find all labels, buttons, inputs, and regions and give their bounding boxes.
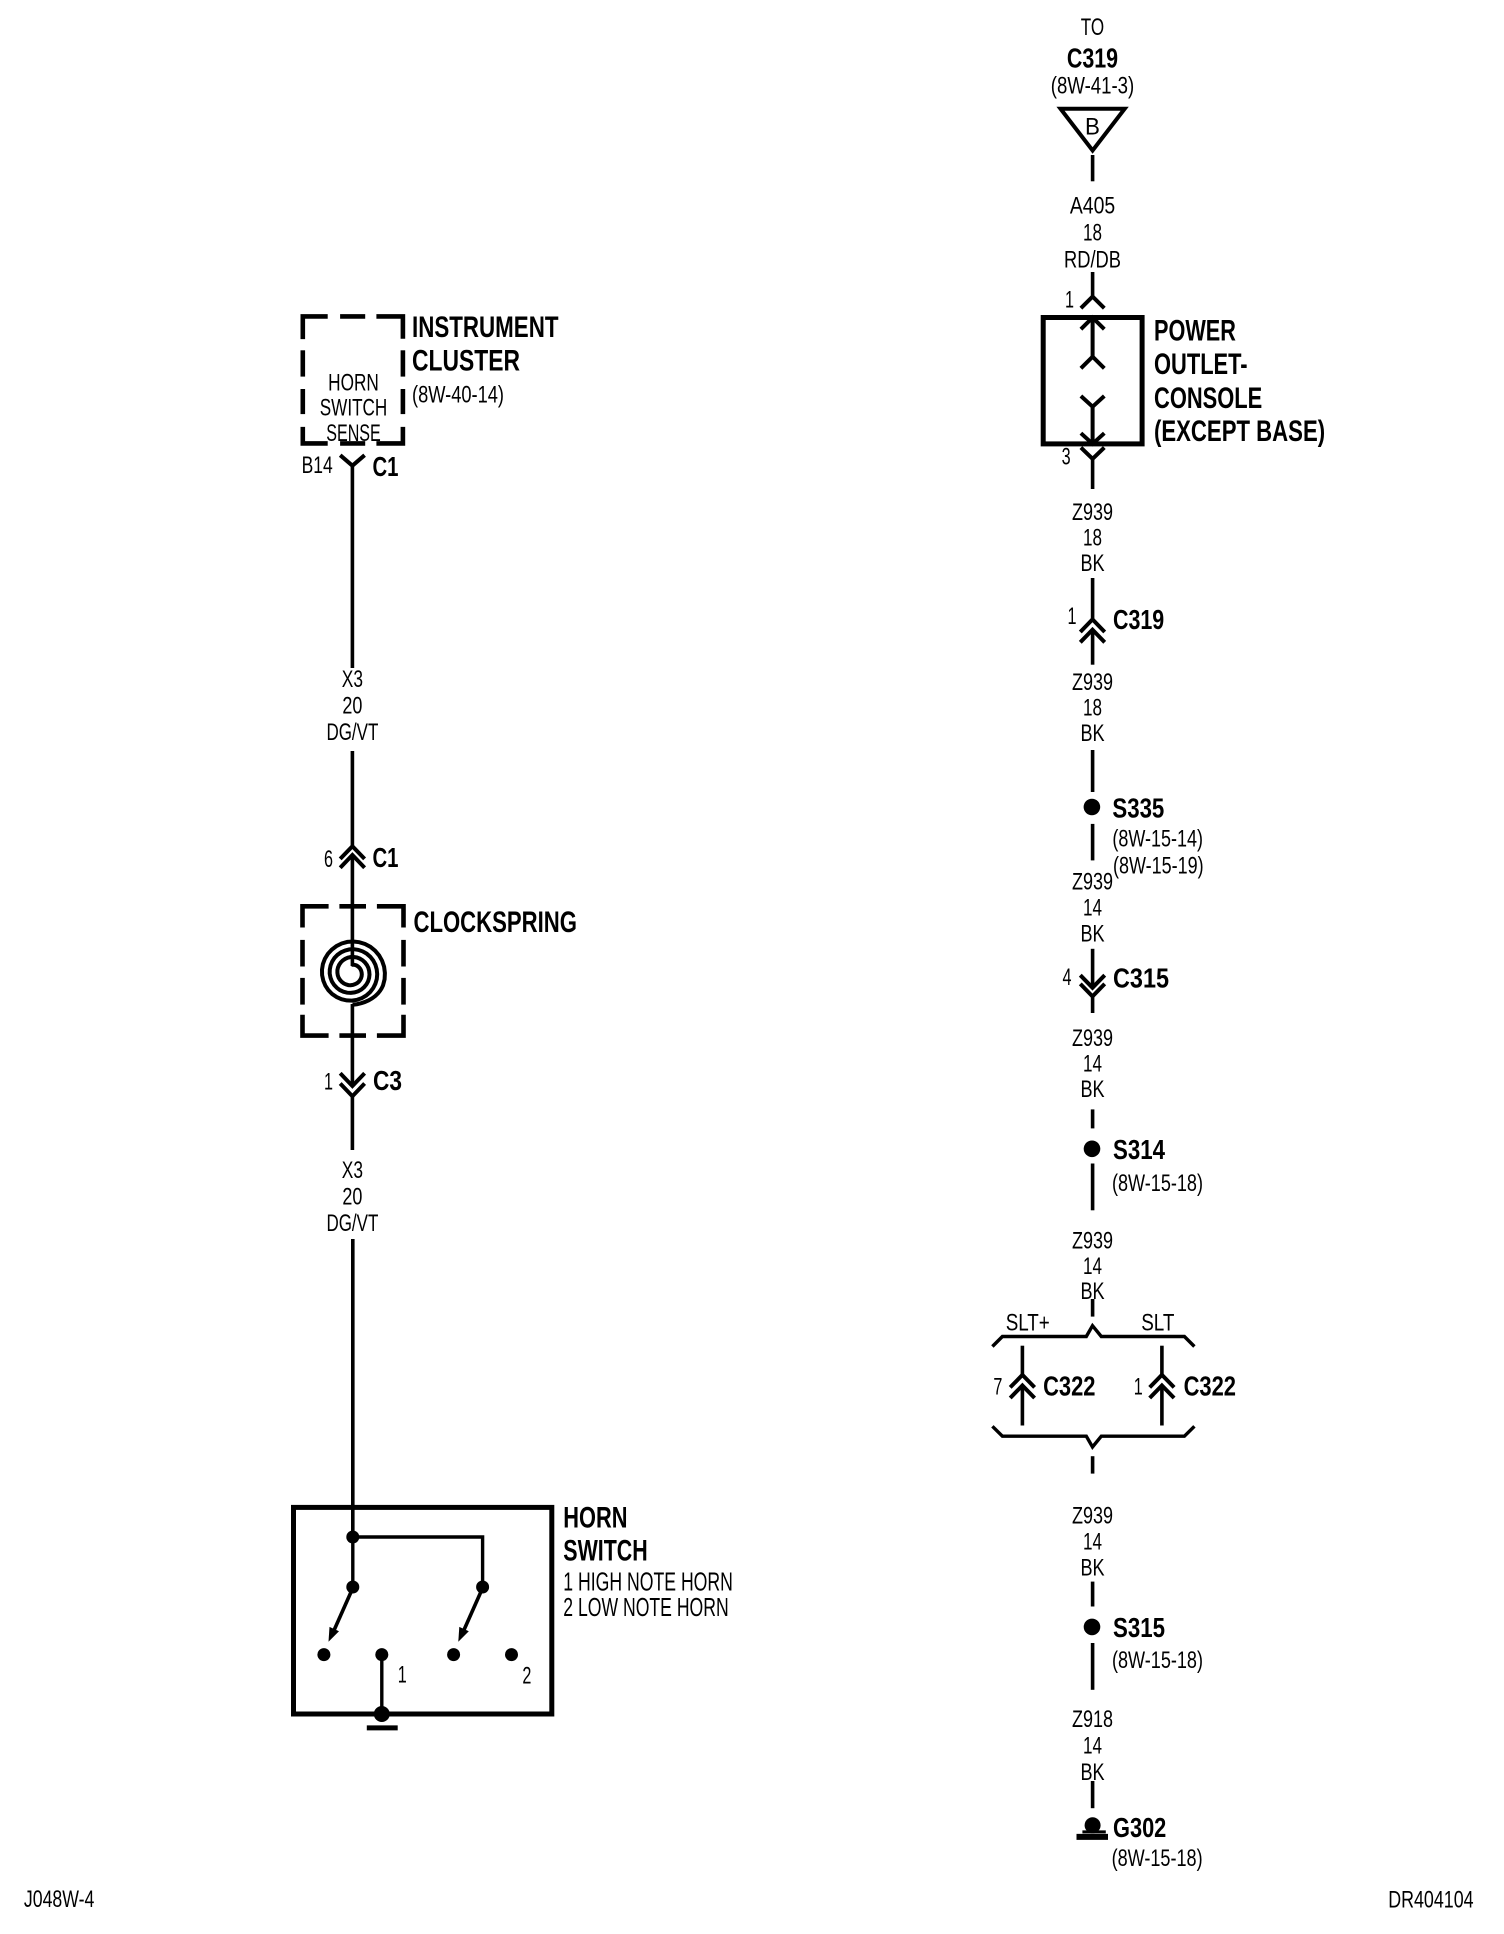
wire label Z918 14 BK	[1072, 1706, 1113, 1786]
svg-text:C319: C319	[1113, 604, 1164, 635]
wire split brace (top)	[992, 1326, 1194, 1347]
svg-text:(8W-40-14): (8W-40-14)	[412, 382, 504, 409]
svg-text:7: 7	[993, 1373, 1002, 1400]
svg-text:(EXCEPT BASE): (EXCEPT BASE)	[1154, 415, 1325, 448]
svg-text:(8W-15-14): (8W-15-14)	[1112, 826, 1203, 853]
wire below S335	[1091, 824, 1095, 861]
svg-text:DG/VT: DG/VT	[326, 1210, 378, 1237]
power outlet name label	[1154, 315, 1325, 448]
svg-text:(8W-41-3): (8W-41-3)	[1051, 73, 1134, 100]
splice S315 label	[1112, 1612, 1203, 1674]
wire into clockspring	[351, 855, 355, 966]
wire above S335	[1091, 750, 1095, 792]
wire stub above split	[1091, 1299, 1095, 1317]
svg-text:20: 20	[342, 693, 362, 720]
left contact node	[317, 1648, 330, 1661]
svg-text:BK: BK	[1080, 550, 1104, 577]
case ground node	[374, 1706, 390, 1722]
in-line connector C3 pin 1 (double chevron down)	[340, 1073, 364, 1096]
svg-text:14: 14	[1083, 894, 1102, 921]
left branch wire lower	[1021, 1386, 1025, 1426]
wire above S314	[1091, 1109, 1095, 1128]
svg-text:20: 20	[342, 1183, 362, 1210]
svg-text:C315: C315	[1113, 963, 1169, 994]
wire below C319	[1091, 630, 1095, 665]
svg-text:2 LOW NOTE HORN: 2 LOW NOTE HORN	[563, 1592, 728, 1622]
wire below triangle	[1091, 155, 1095, 181]
svg-text:SENSE: SENSE	[326, 420, 381, 447]
svg-text:CONSOLE: CONSOLE	[1154, 382, 1262, 415]
svg-text:14: 14	[1083, 1051, 1102, 1078]
svg-text:6: 6	[324, 846, 333, 873]
svg-text:1: 1	[1068, 603, 1077, 630]
splice S335 label	[1112, 792, 1203, 879]
svg-text:J048W-4: J048W-4	[24, 1886, 95, 1913]
wire label A405 18 RD/DB	[1064, 193, 1121, 274]
svg-text:14: 14	[1083, 1529, 1102, 1556]
wire label Z939 14 BK (5)	[1072, 1227, 1113, 1305]
svg-text:(8W-15-19): (8W-15-19)	[1113, 853, 1204, 880]
in-line connector C1 pin 6 (double chevron)	[340, 846, 364, 868]
right branch wire upper	[1160, 1346, 1164, 1375]
case ground bar	[367, 1725, 398, 1730]
horn switch box	[294, 1507, 552, 1714]
wire X3 20 DG/VT upper segment	[351, 466, 355, 668]
wire label X3 20 DG/VT (lower)	[326, 1157, 378, 1237]
wire below S315	[1091, 1643, 1095, 1690]
svg-text:OUTLET-: OUTLET-	[1154, 348, 1248, 381]
off-page triangle B	[1061, 109, 1125, 151]
svg-text:BK: BK	[1080, 920, 1104, 947]
splice S315 node	[1084, 1619, 1101, 1636]
wire segment above C1	[351, 751, 355, 846]
svg-text:1: 1	[398, 1662, 407, 1689]
left branch wire upper	[1021, 1346, 1025, 1375]
svg-text:1: 1	[1134, 1373, 1143, 1400]
power outlet box	[1043, 318, 1142, 444]
left switch blade with arrow	[329, 1588, 353, 1642]
svg-text:C3: C3	[373, 1065, 402, 1096]
svg-text:18: 18	[1083, 694, 1102, 721]
svg-text:Z939: Z939	[1072, 1227, 1113, 1254]
svg-text:1: 1	[324, 1069, 333, 1096]
right branch wire lower	[1160, 1386, 1164, 1426]
svg-text:B: B	[1085, 114, 1100, 141]
svg-text:C1: C1	[373, 451, 399, 482]
svg-text:B14: B14	[302, 452, 333, 479]
left pole node	[346, 1581, 359, 1594]
wire label Z939 18 BK (1)	[1072, 499, 1113, 577]
internal wire to right pole	[353, 1537, 483, 1587]
svg-text:HORN: HORN	[563, 1502, 627, 1535]
wire pin1 to case ground	[380, 1655, 383, 1714]
power outlet internal top contact	[1081, 318, 1104, 369]
instrument cluster inner label HORN SWITCH SENSE	[320, 369, 388, 447]
svg-text:SWITCH: SWITCH	[563, 1534, 647, 1567]
off-page reference TO C319	[1051, 14, 1134, 100]
svg-text:(8W-15-18): (8W-15-18)	[1112, 1170, 1203, 1197]
svg-text:INSTRUMENT: INSTRUMENT	[412, 311, 559, 344]
svg-text:DR404104: DR404104	[1388, 1887, 1473, 1914]
pin 1 contact node	[375, 1648, 388, 1661]
svg-text:G302: G302	[1113, 1812, 1166, 1843]
right switch blade with arrow	[458, 1588, 482, 1642]
in-line connector C322 pin 7 (double chevron)	[1010, 1375, 1034, 1398]
splice S335 node	[1084, 799, 1101, 816]
splice S314 node	[1084, 1141, 1101, 1158]
right pole node	[476, 1581, 489, 1594]
wire into power outlet pin 1	[1091, 272, 1095, 297]
svg-text:TO: TO	[1081, 14, 1104, 41]
connector half-arrow at pin 1	[1081, 297, 1104, 309]
junction node (wire entry)	[346, 1531, 359, 1544]
svg-text:C322: C322	[1184, 1370, 1236, 1401]
svg-text:HORN: HORN	[328, 369, 379, 396]
svg-text:18: 18	[1083, 220, 1102, 247]
svg-text:POWER: POWER	[1154, 315, 1236, 348]
svg-text:(8W-15-18): (8W-15-18)	[1112, 1845, 1203, 1872]
ground G302 label	[1112, 1812, 1203, 1872]
wire below C315	[1091, 996, 1095, 1013]
svg-text:SWITCH: SWITCH	[320, 395, 388, 422]
wire rejoin brace (bottom)	[992, 1426, 1194, 1447]
svg-text:X3: X3	[342, 1157, 363, 1184]
wire out of clockspring	[351, 1004, 355, 1086]
connector fork at pin 3	[1081, 448, 1104, 459]
wire above S315	[1091, 1582, 1095, 1607]
ground G302 symbol	[1077, 1817, 1109, 1837]
wire below C3	[351, 1096, 355, 1150]
svg-text:C322: C322	[1043, 1370, 1095, 1401]
wire stub below rejoin	[1091, 1456, 1095, 1473]
connector fork at instrument cluster pin B14	[340, 455, 364, 466]
wire below S314	[1091, 1164, 1095, 1211]
svg-text:BK: BK	[1080, 1555, 1104, 1582]
wire above G302	[1091, 1781, 1095, 1808]
svg-text:14: 14	[1083, 1253, 1102, 1280]
svg-text:Z939: Z939	[1072, 499, 1113, 526]
wire label Z939 18 BK (2)	[1072, 669, 1113, 747]
svg-text:S335: S335	[1112, 792, 1164, 823]
svg-text:BK: BK	[1080, 720, 1104, 747]
svg-text:SLT: SLT	[1141, 1310, 1174, 1337]
svg-text:2: 2	[522, 1663, 531, 1690]
svg-text:BK: BK	[1080, 1076, 1104, 1103]
svg-text:S315: S315	[1113, 1612, 1165, 1643]
wire label Z939 14 BK (6)	[1072, 1503, 1113, 1582]
wire label Z939 14 BK (3)	[1072, 868, 1113, 947]
svg-text:Z939: Z939	[1072, 868, 1113, 895]
in-line connector C319 pin 1 (double chevron)	[1080, 619, 1104, 642]
right contact node	[447, 1648, 460, 1661]
instrument cluster name label	[412, 311, 559, 409]
splice S314 label	[1112, 1134, 1203, 1197]
svg-text:Z939: Z939	[1072, 1503, 1113, 1530]
svg-text:CLUSTER: CLUSTER	[412, 344, 520, 377]
long wire to horn switch	[351, 1239, 355, 1537]
horn switch legend	[563, 1566, 733, 1622]
svg-text:C1: C1	[373, 842, 399, 873]
svg-text:14: 14	[1083, 1733, 1102, 1760]
clockspring dashed box	[303, 906, 404, 1035]
wire below pin 3	[1091, 459, 1095, 489]
clockspring coil spiral	[322, 942, 385, 1005]
svg-text:3: 3	[1062, 443, 1071, 470]
wire label X3 20 DG/VT (upper)	[326, 666, 378, 746]
power outlet internal bottom contact	[1081, 396, 1104, 444]
in-line connector C322 pin 1 (double chevron)	[1150, 1375, 1174, 1398]
svg-text:4: 4	[1063, 964, 1072, 991]
svg-text:C319: C319	[1067, 42, 1118, 73]
svg-text:18: 18	[1083, 525, 1102, 552]
svg-text:CLOCKSPRING: CLOCKSPRING	[414, 906, 577, 939]
svg-text:RD/DB: RD/DB	[1064, 247, 1121, 274]
svg-text:1: 1	[1065, 286, 1074, 313]
internal wire to left pole	[351, 1537, 354, 1587]
svg-text:Z939: Z939	[1072, 669, 1113, 696]
svg-text:A405: A405	[1070, 193, 1115, 220]
svg-text:(8W-15-18): (8W-15-18)	[1112, 1647, 1203, 1674]
wire above C315	[1091, 949, 1095, 988]
svg-text:X3: X3	[342, 666, 363, 693]
svg-text:Z939: Z939	[1072, 1025, 1113, 1052]
wire label Z939 14 BK (4)	[1072, 1025, 1113, 1103]
svg-text:S314: S314	[1113, 1134, 1165, 1165]
svg-text:Z918: Z918	[1072, 1706, 1113, 1733]
in-line connector C315 pin 4 (double chevron down)	[1080, 975, 1104, 996]
wire above C319	[1091, 578, 1095, 619]
svg-text:DG/VT: DG/VT	[326, 719, 378, 746]
horn switch name label	[563, 1502, 647, 1568]
instrument cluster dashed box	[303, 316, 403, 443]
svg-text:SLT+: SLT+	[1006, 1310, 1050, 1337]
pin 2 contact node	[505, 1648, 518, 1661]
